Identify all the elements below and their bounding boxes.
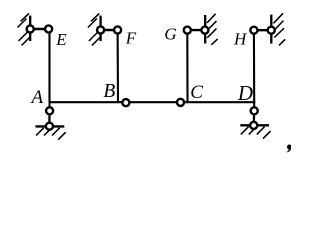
ground bar A <box>36 125 65 127</box>
wall H <box>271 13 285 45</box>
label D <box>237 81 253 105</box>
wall pin at G <box>201 27 208 34</box>
wall pin at F <box>97 26 104 33</box>
link E <box>30 28 48 30</box>
svg-text:B: B <box>103 81 115 102</box>
wall pin at H <box>268 27 275 34</box>
label F <box>125 29 137 48</box>
svg-text:H: H <box>233 30 248 49</box>
link H <box>254 29 271 31</box>
pin A upper <box>46 107 53 114</box>
hinge right of B <box>122 99 129 106</box>
support D: link and pins <box>253 102 256 126</box>
pin D upper <box>251 107 258 114</box>
column DH <box>253 30 255 102</box>
link F <box>101 29 118 31</box>
svg-text:C: C <box>190 82 203 103</box>
svg-text:F: F <box>125 29 137 48</box>
ground hatching A <box>36 128 66 140</box>
pin D lower <box>250 122 257 129</box>
wall pin at E <box>27 25 34 32</box>
pin F <box>114 26 121 33</box>
comma mark bottom right <box>287 145 291 153</box>
svg-text:A: A <box>30 87 44 108</box>
ground hatching D <box>241 127 271 139</box>
wall G <box>205 14 218 45</box>
label G <box>164 24 176 43</box>
label H <box>233 30 248 49</box>
wall F <box>88 14 101 46</box>
hinge left of C <box>177 99 184 106</box>
label C <box>190 82 203 103</box>
pin E <box>45 25 52 32</box>
support A: link and pins <box>48 102 50 126</box>
svg-text:E: E <box>55 30 67 49</box>
column BF <box>117 30 120 102</box>
wall E <box>18 14 31 46</box>
beam ABCD <box>49 101 256 103</box>
column AE <box>48 29 50 102</box>
label B <box>103 81 115 102</box>
ground bar D <box>240 124 269 126</box>
svg-text:G: G <box>164 24 176 43</box>
pin G <box>184 27 191 34</box>
svg-text:D: D <box>237 81 253 105</box>
label A <box>30 87 44 108</box>
column CG <box>186 30 188 102</box>
link G <box>187 29 205 31</box>
pin A lower <box>46 123 53 130</box>
pin H <box>250 27 257 34</box>
label E <box>55 30 67 49</box>
